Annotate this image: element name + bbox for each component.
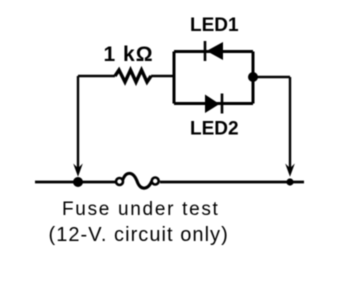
wire: junction to right vertical [253,76,290,79]
arrowhead right (current direction into fuse line) [285,164,295,177]
fuse symbol left circle [116,178,123,185]
resistor R (1 kohm) zigzag [115,70,151,82]
fuse line left segment [35,181,116,184]
svg-text:LED2: LED2 [190,119,239,140]
junction dot right on fuse line [286,178,293,185]
LED2 triangle (pointing right) [205,95,220,114]
arrowhead left (current direction into fuse line) [73,164,83,177]
LED1 triangle (pointing left) [207,42,224,60]
LED parallel box (left, top, right, bottom wires) [174,52,253,104]
wire: left vertical drop [77,76,79,172]
wire: resistor to LED box [151,75,174,78]
fuse symbol S-curve element [123,173,153,188]
svg-text:LED1: LED1 [190,15,239,36]
junction dot at right side of LED box [248,72,258,82]
fuse symbol right circle [152,178,159,185]
LED2 cathode bar [221,94,224,114]
wire: right vertical drop [289,77,291,172]
wire: left branch horizontal from corner to resistor [78,75,115,78]
svg-text:1 kΩ: 1 kΩ [104,43,154,66]
LED1 cathode bar [204,41,207,61]
svg-text:(12-V. circuit only): (12-V. circuit only) [49,224,229,246]
junction dot left on fuse line [73,177,83,187]
svg-text:Fuse under test: Fuse under test [62,199,220,220]
fuse line right segment [160,181,304,184]
